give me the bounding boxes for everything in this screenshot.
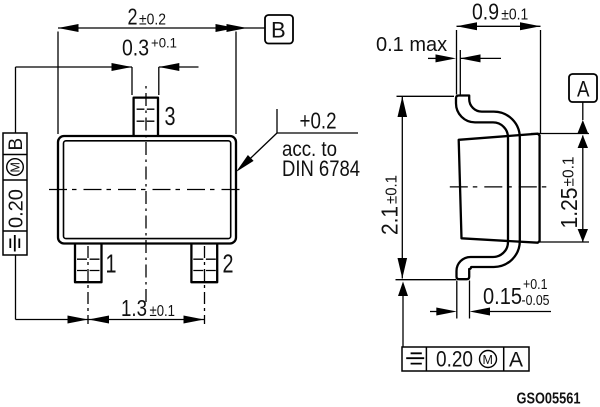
left datum reference line (15, 67, 17, 133)
lead (bottom, side profile) (457, 241, 520, 279)
svg-text:±0.1: ±0.1 (501, 7, 528, 24)
svg-text:GSO05561: GSO05561 (517, 391, 581, 407)
svg-text:+0.1: +0.1 (151, 35, 177, 51)
svg-text:A: A (509, 349, 523, 372)
dimension 0.15 line (430, 311, 438, 313)
svg-text:0.1 max: 0.1 max (376, 34, 447, 56)
dimension 0.1 max line (428, 57, 437, 59)
dimension 0.15 extension lines (456, 281, 458, 319)
svg-text:3: 3 (165, 101, 176, 131)
dimension 2 +-0.2 line (58, 27, 265, 29)
dimension 1.3 +-0.1 line (16, 319, 205, 321)
body (side) (459, 134, 540, 243)
lead 2 centerline (204, 246, 206, 324)
frame leader (bottom right) (398, 282, 408, 297)
lead 1 centerline (87, 246, 89, 324)
dimension 0.9 line (457, 25, 541, 27)
dimension 0.3 extension lines (131, 67, 133, 95)
frame symmetry symbol (10, 235, 19, 252)
svg-text:1.3: 1.3 (121, 295, 147, 321)
package body inner outline (64, 141, 231, 239)
datum box B (265, 15, 293, 44)
lead 3 (top) (134, 98, 158, 135)
datum A leader (582, 102, 584, 120)
feature control frame (rotated) 0.20 M B (3, 133, 27, 255)
svg-text:1.25: 1.25 (556, 188, 582, 229)
dimension 0.3 +0.1 line (16, 66, 133, 68)
svg-text:M: M (9, 162, 23, 172)
svg-text:B: B (6, 138, 27, 151)
svg-text:1: 1 (106, 249, 117, 279)
vertical centerline through lead 3 (145, 86, 147, 304)
frame M circle (rotated) (7, 159, 24, 176)
svg-text:A: A (577, 77, 590, 102)
side view horizontal centerline (450, 186, 547, 188)
frame symmetry symbol (406, 353, 424, 363)
svg-text:2: 2 (223, 249, 234, 279)
dimension 0.9 +-0.1 extension lines (456, 30, 458, 95)
lead 3 bend ticks (137, 109, 155, 121)
lead 1 (bottom left) (75, 244, 102, 282)
lead 2 bend ticks (193, 259, 216, 270)
horizontal centerline of body (49, 189, 244, 191)
svg-text:+0.1: +0.1 (523, 277, 548, 293)
lead 1 bend ticks (77, 259, 100, 270)
svg-text:DIN 6784: DIN 6784 (282, 156, 360, 181)
svg-text:2: 2 (128, 4, 138, 30)
svg-text:0.9: 0.9 (472, 0, 499, 25)
frame M circle (480, 351, 497, 368)
dimension 1.25 line (582, 136, 584, 243)
svg-text:0.3: 0.3 (122, 35, 149, 61)
svg-text:±0.2: ±0.2 (139, 12, 166, 29)
svg-text:0.15: 0.15 (483, 283, 522, 309)
dimension 1.25 extension lines (531, 133, 589, 135)
lead 2 (bottom right) (191, 244, 217, 282)
svg-text:M: M (483, 353, 493, 367)
svg-text:0.20: 0.20 (436, 347, 473, 372)
svg-text:±0.1: ±0.1 (561, 157, 578, 187)
svg-text:B: B (271, 18, 286, 43)
dimension 2.1 line (401, 97, 403, 279)
svg-text:+0.2: +0.2 (300, 107, 337, 133)
svg-text:±0.1: ±0.1 (384, 175, 401, 204)
svg-text:±0.1: ±0.1 (150, 303, 176, 320)
datum box A (top) (569, 74, 597, 102)
lead (top, pin 3 side profile) (456, 96, 520, 243)
dimension 2.1 extension lines (397, 95, 455, 97)
svg-text:2.1: 2.1 (377, 206, 403, 235)
package body outer outline (58, 136, 236, 244)
edge note leader (+0.2 acc. to DIN 6784) (276, 109, 278, 133)
dimension 2 +-0.2 extension lines (57, 32, 59, 135)
svg-text:-0.05: -0.05 (522, 293, 550, 309)
feature control frame (bottom) 0.20 M A (402, 347, 529, 371)
svg-text:0.20: 0.20 (6, 189, 28, 228)
